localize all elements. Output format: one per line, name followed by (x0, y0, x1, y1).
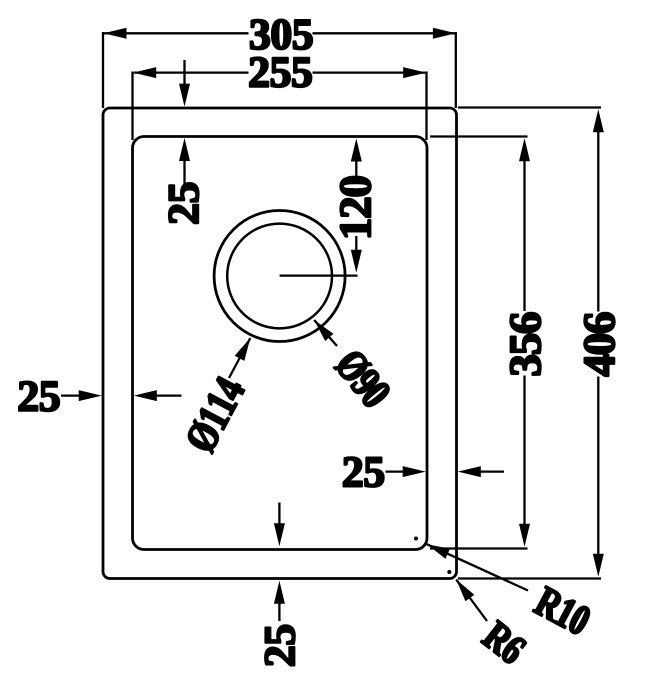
inner rectangle (bowl edge, R10 corners) (133, 137, 428, 550)
leader Ø114 line (229, 338, 250, 378)
dim 305 line right segment (313, 32, 455, 34)
dim 406 arrow down (593, 554, 604, 577)
dim 255 label (250, 58, 311, 88)
dim 120 arrow down to centre line (351, 250, 362, 273)
dim 305 arrow right (433, 28, 456, 39)
corner arc centre dot (inner R10) (414, 537, 418, 541)
label R10 (532, 586, 592, 636)
dim 120 upper line (355, 156, 357, 177)
dim 406 extension line top (outer top edge extended) (458, 106, 601, 108)
leader Ø90 arrow to inner circle (310, 316, 333, 341)
dim 406 label (584, 313, 614, 376)
leader R10 arrow to inner corner (425, 539, 450, 559)
dim 25 right label (344, 457, 384, 487)
dim 356 line upper (523, 155, 525, 311)
dim 255 line right segment (313, 71, 426, 73)
dim 255 arrow right (403, 67, 426, 78)
dim 25 bottom lower line (278, 599, 280, 621)
dim 356 arrow up (519, 138, 530, 161)
dim 25 right arrow right to inner right edge (403, 466, 426, 477)
dim 120 label (340, 177, 370, 237)
dim 25 left tail line (152, 394, 182, 396)
dim 406 arrow up (593, 109, 604, 132)
dim 120 lower line (355, 236, 357, 255)
leader Ø90 line (314, 320, 337, 346)
dim 305 arrow left (104, 28, 127, 39)
dim 356 line lower (523, 376, 525, 532)
leader R6 arrow to outer corner (452, 576, 475, 601)
dim 406 line lower (597, 377, 599, 561)
dim 25 left label (19, 382, 59, 412)
label Ø90 (333, 348, 392, 411)
dim 25 bottom upper line (278, 503, 280, 528)
dim 406 line upper (597, 126, 599, 312)
corner arc centre dot (outer R6) (447, 570, 451, 574)
inner circle (drain Ø90) (227, 224, 332, 329)
dim 120 arrow up to inner top edge (351, 139, 362, 162)
dim 25 top rim label (169, 183, 199, 223)
dim 25 left arrow right to outer left edge (79, 390, 102, 401)
dim 25 left arrow left to inner left edge (134, 390, 157, 401)
dim 25 top rim upper line (183, 60, 185, 88)
dim 356 extension line bottom (inner bottom edge extended) (430, 547, 528, 549)
dim 356 arrow down (519, 524, 530, 547)
dim 255 extension line right (425, 72, 427, 141)
dim 25 right arrow left to outer right edge (458, 466, 481, 477)
dim 25 right line from label (386, 470, 408, 472)
dim 305 label (251, 20, 313, 50)
dim 25 top rim arrow down to outer top edge (179, 84, 190, 107)
dim 25 right tail line (476, 470, 504, 472)
label Ø114 (184, 374, 246, 454)
dim 305 extension line right (455, 32, 457, 108)
leader R6 line (456, 580, 487, 622)
dim 25 bottom arrow down to inner bottom edge (274, 523, 285, 546)
dim 305 extension line left (102, 32, 104, 108)
dim 255 line left segment (134, 71, 249, 73)
dim 255 arrow left (133, 67, 156, 78)
dim 356 label (510, 313, 540, 375)
dim 25 bottom arrow up to outer bottom edge (274, 581, 285, 604)
outer rectangle (sink outer edge, R6 corners) (103, 108, 457, 579)
dim 255 extension line left (131, 72, 133, 141)
dim 25 top rim arrow up to inner top edge (179, 138, 190, 161)
dim 305 line left segment (104, 32, 249, 34)
dim 406 extension line bottom (outer bottom edge extended) (458, 577, 601, 579)
dim 356 extension line top (inner top edge extended) (430, 135, 528, 137)
leader R10 line (427, 544, 528, 590)
centre line of drain (280, 274, 358, 276)
dim 25 top rim lower line (183, 156, 185, 184)
dim 25 bottom label (265, 625, 295, 665)
dim 25 left line from label (61, 394, 83, 396)
outer circle (drain Ø114) (214, 211, 345, 342)
leader Ø114 arrow to outer circle (235, 335, 256, 360)
label R6 (481, 620, 528, 666)
